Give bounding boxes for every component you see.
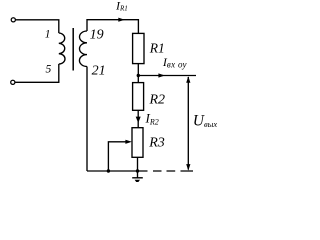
terminal top-left (11, 18, 15, 22)
winding primary W1 (59, 33, 65, 64)
svg-text:R3: R3 (148, 135, 165, 150)
resistor R2 (133, 83, 144, 111)
resistor R3 (132, 128, 143, 158)
wire secondary bottom (86, 67, 88, 172)
wire node A to right (138, 75, 196, 77)
ground triangle (135, 180, 140, 182)
wire primary top (16, 20, 59, 33)
wire primary bottom (15, 64, 59, 82)
svg-text:R1: R1 (149, 41, 165, 56)
wire secondary top (87, 20, 138, 34)
arrowhead I_R1 (118, 18, 125, 22)
node A junction dot (137, 74, 140, 77)
svg-text:1: 1 (45, 28, 51, 40)
resistor R1 (133, 33, 144, 63)
junction dot wiper-rail (107, 169, 110, 172)
wire R3 to rail (137, 157, 139, 171)
ground (137, 171, 139, 178)
dashed extension of rail (153, 170, 193, 172)
svg-text:R2: R2 (149, 92, 166, 107)
core (72, 28, 74, 71)
svg-text:19: 19 (90, 28, 104, 43)
junction dot R3-rail (136, 169, 139, 172)
terminal bottom-left (11, 80, 15, 84)
svg-text:21: 21 (92, 64, 106, 79)
arrowhead U top (186, 76, 190, 83)
wire wiper (108, 142, 126, 171)
arrowhead I_R2 (136, 117, 141, 123)
arrowhead I_vx (158, 73, 165, 77)
arrowhead U bottom (186, 164, 190, 171)
arrowhead wiper (125, 140, 131, 144)
wire R1 to node A (137, 64, 139, 83)
arrow I_R1 (119, 19, 125, 21)
svg-text:5: 5 (46, 63, 52, 75)
wire R2 to R3 (137, 110, 139, 127)
wire bottom rail (87, 170, 148, 172)
winding secondary W2 (79, 31, 87, 67)
dimension line U_out (187, 77, 189, 170)
